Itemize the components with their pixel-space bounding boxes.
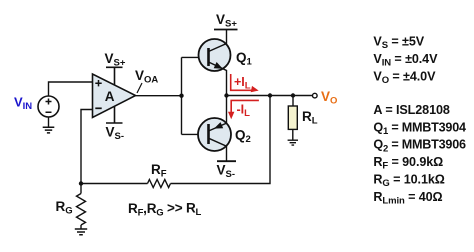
svg-text:RF,RG >> RL: RF,RG >> RL [128,201,202,219]
ground under RL [288,140,298,145]
svg-text:RL: RL [302,109,318,127]
svg-text:Q1 = MMBT3904: Q1 = MMBT3904 [373,120,466,137]
Q1 emitter with arrow [209,62,227,96]
op-amp + marker [95,80,101,86]
junction RL tap [291,93,295,97]
wire to Q2 base [182,133,209,135]
transistor Q1 body [199,39,231,71]
svg-text:A: A [105,89,115,104]
node junction inverting/RG [79,181,83,185]
svg-text:VIN = ±0.4V: VIN = ±0.4V [373,52,438,69]
output terminal [313,93,318,98]
svg-text:VO = ±4.0V: VO = ±4.0V [373,70,436,87]
svg-text:VS = ±5V: VS = ±5V [373,35,424,52]
svg-text:RF: RF [151,162,167,180]
output rail wire [227,95,313,97]
op-amp - marker [95,107,101,109]
resistor RF zigzag [148,180,171,188]
svg-text:Q2 = MMBT3906: Q2 = MMBT3906 [373,138,466,155]
svg-text:VS-: VS- [106,125,125,143]
wire VIN top to op-amp + input [49,82,93,96]
svg-text:VO: VO [321,89,337,107]
op-amp VS- supply stem [106,107,123,124]
wire RL stem bottom [292,129,294,140]
wire RL stem top [292,96,294,107]
junction at emitters [224,93,228,97]
resistor RL box [288,106,297,129]
svg-text:RF = 90.9kΩ: RF = 90.9kΩ [373,155,443,172]
svg-text:-IL: -IL [237,102,251,119]
op-amp VS+ supply stem [106,67,123,85]
node junction at base bus [179,94,183,98]
svg-text:VOA: VOA [135,68,158,86]
svg-text:RLmin = 40Ω: RLmin = 40Ω [373,190,442,207]
svg-text:+IL: +IL [234,75,251,92]
transistor Q2 body [198,118,231,151]
junction feedback tap [268,93,272,97]
supply bar VS+ above Q1 [214,29,238,31]
tick from VOA label to output [137,83,142,93]
feedback wire right segment [171,96,271,184]
wire VIN bottom stem [48,117,50,127]
ground under RG [75,229,87,235]
Q2 emitter with arrow (from rail) [209,96,227,132]
svg-text:VS+: VS+ [105,51,126,69]
Q1 collector [209,30,227,52]
wire RG stem bottom [80,225,82,229]
Q2 collector [209,138,227,161]
resistor RG zigzag [77,194,86,226]
voltage source VIN [38,96,59,117]
current arrow +IL [231,74,253,90]
svg-text:RG = 10.1kΩ: RG = 10.1kΩ [373,173,444,190]
wire op-amp output to base bus [136,95,182,97]
svg-text:VS-: VS- [217,163,236,181]
svg-text:A = ISL28108: A = ISL28108 [373,103,449,117]
wire to Q1 base [182,56,209,58]
Q1 base bar [207,48,210,66]
svg-text:VIN: VIN [14,95,32,113]
wire base bus vertical [181,57,183,134]
Q2 base bar [207,124,210,144]
supply bar VS- below Q2 [217,160,236,162]
svg-text:Q2: Q2 [235,128,251,146]
svg-text:VS+: VS+ [216,12,237,30]
current arrow -IL [231,100,259,113]
svg-text:Q1: Q1 [236,50,253,68]
feedback wire left segment [81,183,148,185]
wire RG stem top [80,184,82,194]
svg-text:RG: RG [56,199,73,217]
ground under VIN [43,127,55,133]
op-amp U A triangle [93,74,136,118]
wire inverting input to feedback node [81,110,93,184]
